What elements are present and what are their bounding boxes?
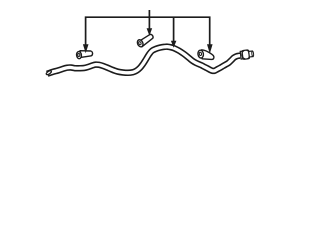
arrowhead 1: [83, 44, 89, 53]
fuel hose outer outline: [47, 47, 240, 74]
clip C3: [197, 50, 213, 60]
callout bracket: [86, 17, 210, 45]
arrowhead 4: [207, 44, 213, 53]
hose open end rim: [46, 70, 52, 75]
tip end cap: [252, 51, 254, 57]
pipe tip: [249, 51, 253, 57]
ferrule: [240, 51, 243, 59]
nut facet line b: [246, 50, 250, 59]
nut facet line a: [241, 51, 245, 60]
leader stub to part number (cropped above): [148, 10, 150, 17]
leader line to arrow 2: [148, 17, 150, 29]
end fitting: ferrule, union nut, pipe tip: [240, 49, 254, 59]
clip C2: [136, 34, 153, 47]
fuel hose inner white: [47, 47, 240, 74]
union nut: [242, 50, 250, 60]
clip C1: [76, 51, 92, 59]
arrowhead 2: [147, 28, 153, 36]
arrowhead 3: [171, 41, 177, 48]
leader line to arrow 3 (hose): [173, 17, 175, 41]
